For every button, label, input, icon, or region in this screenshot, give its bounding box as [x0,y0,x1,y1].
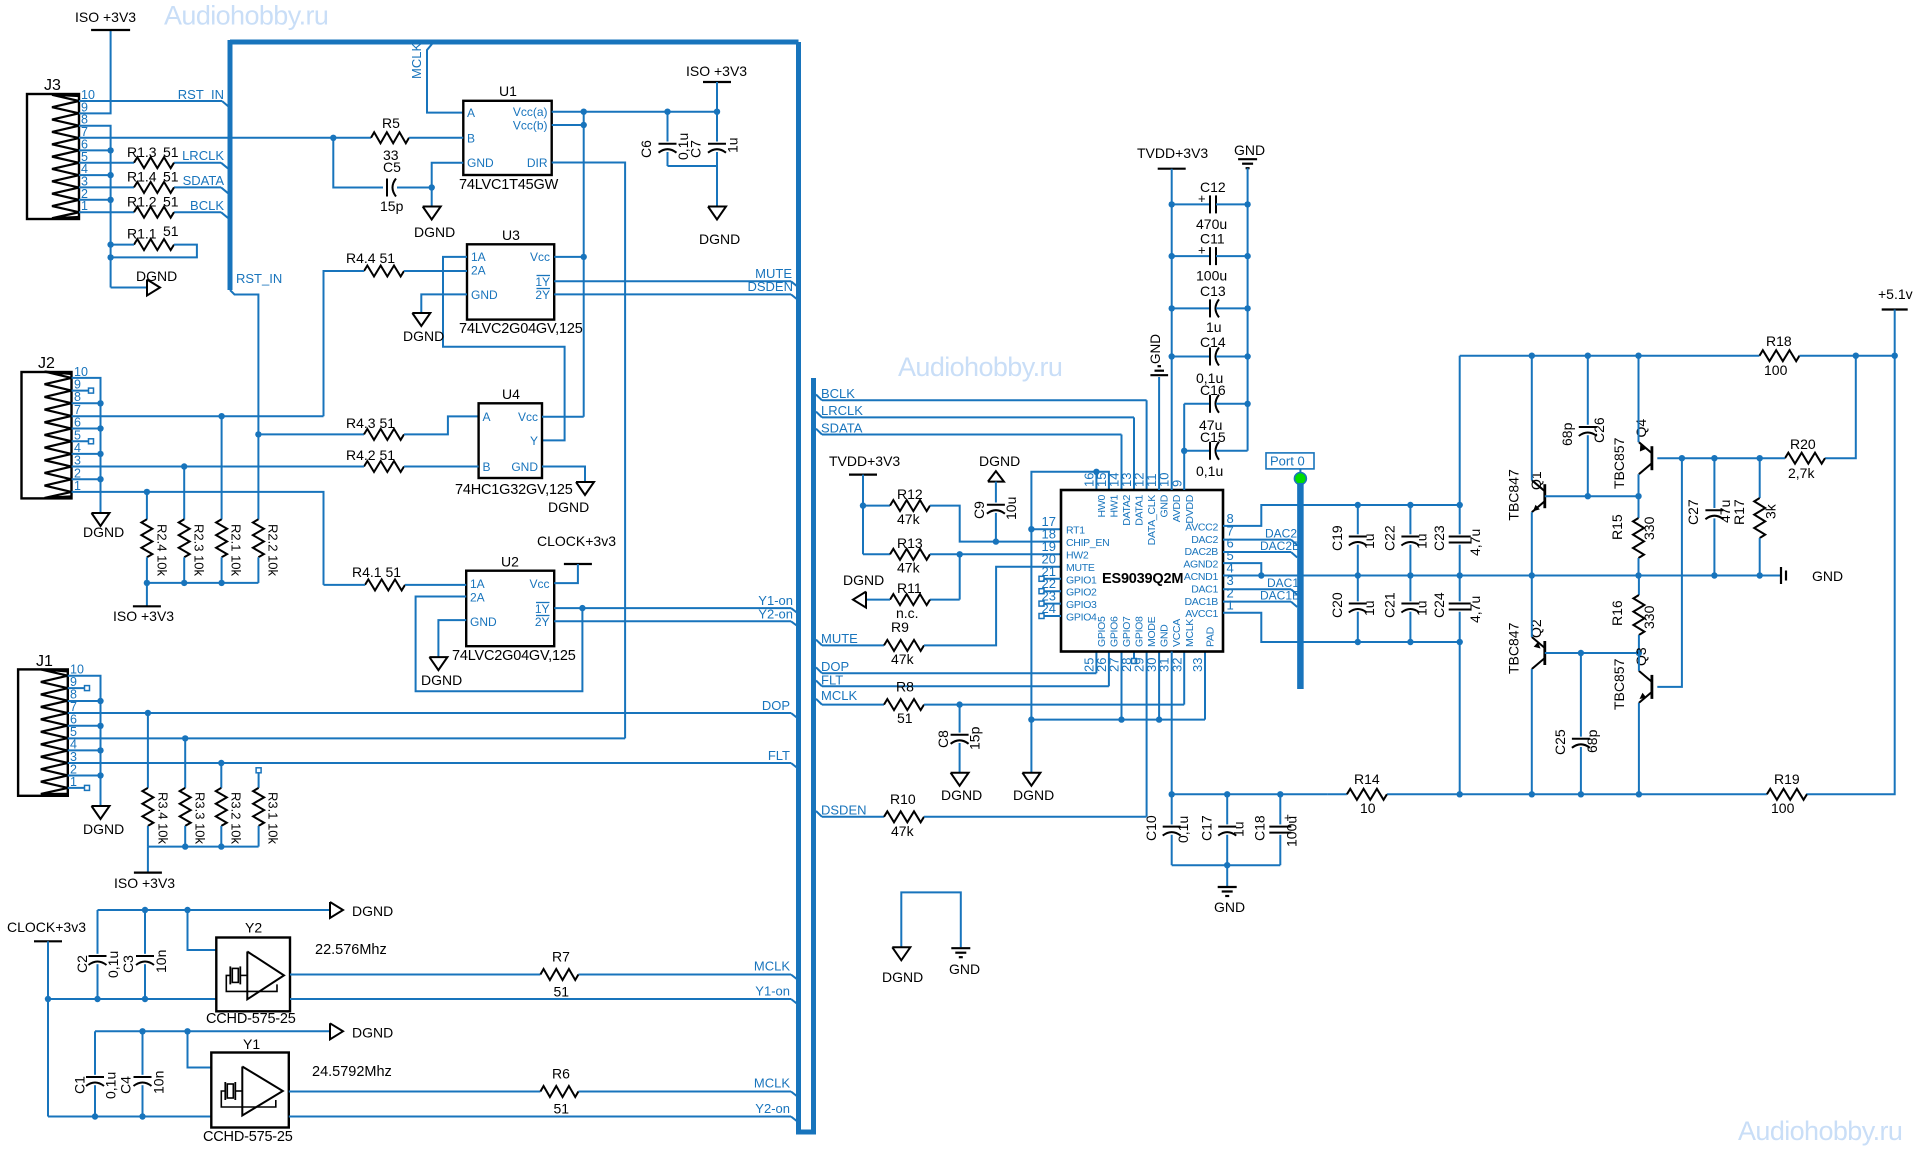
svg-text:RST_IN: RST_IN [178,87,224,102]
bus: thick middle vertical (left leg) [796,42,801,1132]
svg-text:Y: Y [530,434,538,448]
ground DGND (chip) [1013,773,1054,803]
svg-text:MCLK: MCLK [821,688,857,703]
chip left pin labels [1042,514,1110,623]
net label BCLK [190,198,224,213]
wire Y2 vdd rail [48,996,216,1002]
bus: thick left vertical (J3 side) [228,40,233,290]
svg-text:MUTE: MUTE [821,631,858,646]
svg-text:Y2-on: Y2-on [758,607,793,622]
net label Y1-on (Y2) [755,984,790,999]
capacitor C3 [120,910,169,999]
wire DGND net horizontal [1031,716,1205,722]
wire +5.1v vertical [1806,310,1895,795]
ground DGND (Y1 rail) [330,1023,393,1040]
svg-text:Q1: Q1 [1528,471,1544,490]
svg-text:C3: C3 [120,955,136,973]
ground GND (VCCA) [1214,887,1245,915]
svg-text:TVDD+3V3: TVDD+3V3 [1137,145,1208,161]
svg-text:Audiohobby.ru: Audiohobby.ru [164,1,328,31]
svg-text:TBC847: TBC847 [1506,622,1522,674]
svg-text:Audiohobby.ru: Audiohobby.ru [1738,1116,1902,1146]
transistor Q1 TBC847 [1506,469,1545,521]
junction J2 pin4 [72,451,104,457]
J3 pin label 2 [81,187,88,201]
wire U3 1A loop from U4 Y [443,257,565,441]
wire R2.x bottoms rail [144,557,259,586]
svg-text:U1: U1 [499,83,517,99]
wire U4 GND to DGND [542,467,585,483]
capacitor C1 [72,1031,119,1116]
svg-text:AVDD: AVDD [1171,494,1183,522]
svg-text:C17: C17 [1199,815,1215,841]
svg-text:R13: R13 [897,535,923,551]
svg-text:GND: GND [1812,568,1843,584]
wire C5 left leg [333,138,383,188]
svg-text:C26: C26 [1591,417,1607,443]
net label DAC1 [1267,576,1299,590]
svg-text:DGND: DGND [699,231,740,247]
resistor R2.1 10k [216,519,243,576]
svg-text:GND: GND [949,961,980,977]
junction R12 tap [860,502,866,508]
svg-text:1Y: 1Y [535,275,550,289]
wire DGND-GND bridge [901,892,961,947]
svg-text:74LVC1T45GW: 74LVC1T45GW [459,177,559,193]
svg-text:C27: C27 [1685,499,1701,525]
svg-text:C25: C25 [1552,729,1568,755]
wire Q1 emitter down [1531,512,1533,575]
wire R20 right leg [1825,356,1856,459]
wire DGND stub [1030,720,1032,773]
wire Y1 MCLK out [289,1092,798,1098]
junction J2 pin8 [72,400,104,406]
net label BCLK (right bus) [821,386,855,401]
J2 pin label 9 [74,378,81,392]
bus: thick top horizontal segment [230,40,799,45]
svg-text:C5: C5 [383,159,401,175]
svg-text:51: 51 [163,144,179,160]
power ISO +3V3 (top) [75,9,136,30]
svg-text:Y2: Y2 [245,920,262,936]
net label FLT (left bus) [768,748,790,763]
wire Q1 base row [1545,493,1639,499]
wire R1.1 right loop [107,245,196,261]
wire Q3 collector up [1638,653,1640,671]
svg-text:2A: 2A [470,591,485,605]
capacitor C10 0,1u [1143,794,1191,865]
wire J3 pin1 BCLK [79,212,228,218]
J2 pin label 5 [74,428,81,442]
svg-text:0,1u: 0,1u [103,1072,119,1099]
wire Q3 base up [1657,458,1682,687]
svg-text:330: 330 [1641,516,1657,540]
svg-text:FLT: FLT [821,672,843,687]
J2 pin label 3 [74,454,81,468]
svg-text:R20: R20 [1790,436,1816,452]
wire U2 1Y Y1-on [554,608,798,613]
svg-text:1Y: 1Y [535,602,550,616]
svg-text:AVCC1: AVCC1 [1185,608,1218,620]
bus: thick bottom U-turn [796,1130,816,1135]
connector J2 [22,355,72,498]
wire J1 pin9 nc [68,686,90,691]
ground GND (star) [949,948,980,977]
net label Y2-on (Y1) [755,1101,790,1116]
resistor R9 47k [884,619,924,667]
wire to DGND (J3) [111,287,147,289]
wire Y2 EN pin [188,910,217,950]
svg-text:GPIO6: GPIO6 [1108,616,1120,647]
power ISO +3V3 (J2 pulls) [113,583,174,624]
svg-text:SDATA: SDATA [821,420,863,435]
wire Y1 vdd rail [47,1114,49,1116]
svg-text:GPIO7: GPIO7 [1121,616,1133,647]
svg-text:R9: R9 [891,619,909,635]
port label Port 0 [1266,453,1314,469]
capacitor C8 15p [935,705,983,773]
resistor R18 100 [1760,333,1800,378]
power TVDD+3V3 [829,453,900,554]
resistor R3.2 10k [216,788,244,845]
svg-text:R5: R5 [382,115,400,131]
svg-text:R16: R16 [1609,600,1625,626]
wire J2 pin1 long [72,489,324,585]
svg-text:22.576Mhz: 22.576Mhz [315,942,387,958]
svg-text:R2.4 10k: R2.4 10k [155,524,170,577]
resistor R4.2 [346,447,404,472]
svg-text:R18: R18 [1766,333,1792,349]
svg-text:J1: J1 [36,653,53,670]
resistor R14 10 [1347,771,1387,816]
wire RST_IN bus tail [230,290,258,434]
resistor R4.4 [346,250,404,277]
J2 pin label 10 [74,365,88,379]
wire Y1 gnd rail [95,1028,330,1034]
svg-text:DIR: DIR [527,156,548,170]
resistor R10 47k [884,791,924,839]
wire Q4 base row [1657,455,1785,461]
svg-text:TBC857: TBC857 [1611,658,1627,710]
IC U1 74LVC1T45GW [459,83,559,193]
wire C6 C7 bottoms [668,166,718,207]
net label FLT (right bus) [821,672,843,687]
svg-text:1: 1 [70,775,77,789]
capacitor C24 4,7u [1431,576,1483,643]
net label LRCLK [182,148,224,163]
resistor R5 [333,115,409,163]
svg-text:LRCLK: LRCLK [821,403,863,418]
svg-text:DOP: DOP [762,698,790,713]
net label LRCLK (right bus) [821,403,863,418]
resistor R13 47k [863,535,930,576]
wire J1 pin7 DOP [68,710,798,719]
svg-text:R4.1 51: R4.1 51 [352,564,401,580]
svg-text:DAC1B: DAC1B [1260,589,1300,603]
svg-text:2,7k: 2,7k [1788,465,1815,481]
net label DAC2 [1265,527,1297,541]
transistor Q4 TBC857 [1611,419,1652,489]
wire U2 2A feedback loop [416,597,586,692]
svg-text:MCLK: MCLK [409,43,424,79]
svg-text:GPIO5: GPIO5 [1096,616,1108,647]
wire C24 col down [1459,642,1461,794]
svg-text:R17: R17 [1731,499,1747,525]
wire CLOCK rail corner to Y1 [48,1113,211,1119]
J2 pin label 6 [74,416,81,430]
junction J1 pin4 [68,747,104,753]
svg-text:DGND: DGND [403,328,444,344]
resistor R1.4 [127,169,179,193]
chip GPIO1-4 nc stubs [1039,576,1061,618]
svg-text:HW0: HW0 [1096,495,1108,518]
capacitor C15 0,1u [1184,429,1247,479]
junction C5 tap [330,135,336,141]
svg-text:DSDEN: DSDEN [821,803,867,818]
resistor R1.1 [127,223,179,250]
svg-text:Audiohobby.ru: Audiohobby.ru [898,352,1062,382]
svg-text:C8: C8 [935,730,951,748]
resistor R2.2 10k [253,519,281,576]
svg-text:DATA2: DATA2 [1121,495,1133,526]
svg-text:C19: C19 [1329,525,1345,551]
wire J1 pin3 FLT [68,760,798,769]
svg-text:R4.2 51: R4.2 51 [346,447,395,463]
ground DGND (U4) [548,482,594,515]
svg-text:1u: 1u [1361,600,1377,616]
wire AVCC2 top rail [1355,502,1463,508]
svg-text:33: 33 [1190,658,1205,672]
net label SDATA (right bus) [821,420,863,435]
svg-text:BCLK: BCLK [821,386,855,401]
ground GND (stack top) [1234,142,1265,168]
svg-text:C4: C4 [118,1076,134,1094]
wire top rail 355 [1460,353,1760,359]
power CLOCK+3v3 (U2) [537,533,616,564]
junction J2 pin2 [72,476,104,482]
svg-text:DAC1: DAC1 [1191,583,1218,595]
wire J3 pin3 SDATA [79,187,228,193]
wire mid rail right part [1532,572,1780,578]
svg-text:Y2-on: Y2-on [755,1101,790,1116]
svg-text:CCHD-575-25: CCHD-575-25 [203,1129,293,1145]
capacitor C23 4,7u [1431,505,1483,576]
svg-text:1u: 1u [1206,319,1222,335]
net label DAC1B [1260,589,1300,603]
wire AGND2 join [1223,563,1265,579]
svg-text:51: 51 [163,169,179,185]
svg-text:U4: U4 [502,386,520,402]
svg-text:51: 51 [554,984,570,1000]
wire R4.3 to U4 A [404,416,479,434]
wire U3 Vcc [554,254,587,260]
J3 pin label 5 [81,150,88,164]
resistor R2.3 10k [179,519,207,576]
bus: thick right vertical (DAC side) [811,378,816,1132]
svg-text:ISO +3V3: ISO +3V3 [113,608,174,624]
wire LRCLK to DATA1 [816,412,1134,490]
junction CLOCK rail Y2 [45,996,51,1002]
wire J2 pin3 to R4.2 to U4 B [223,466,478,468]
resistor R12 47k [863,486,930,527]
svg-text:100: 100 [1771,800,1795,816]
svg-text:+: + [1198,191,1206,206]
wire C23 col up [1459,356,1461,505]
wire R4.4 right to U3 2A [404,270,467,272]
resistor R8 51 [884,679,924,727]
svg-text:AGND2: AGND2 [1183,559,1218,571]
wire Vcc vertical to U3/U4 [583,112,585,417]
wire U2 2Y Y2-on [554,621,798,626]
wire RT1 to DGND net [1028,526,1061,532]
svg-text:R14: R14 [1354,771,1380,787]
svg-text:R7: R7 [552,949,570,965]
svg-text:GND: GND [471,288,498,302]
capacitor C19 1u [1329,505,1377,576]
svg-text:GPIO4: GPIO4 [1066,612,1097,624]
wire MCLK from top bus to U1 A [427,44,463,113]
resistor R1.2 [127,194,179,218]
svg-text:74LVC2G04GV,125: 74LVC2G04GV,125 [459,321,583,337]
node Port 0 green dot [1294,473,1306,485]
svg-text:PAD: PAD [1205,626,1217,647]
transistor Q2 TBC847 [1506,619,1545,674]
svg-text:DAC2B: DAC2B [1260,539,1300,553]
svg-text:DGND: DGND [1013,787,1054,803]
svg-text:4,7u: 4,7u [1467,529,1483,556]
J1 pin label 2 [70,762,77,776]
svg-text:J3: J3 [44,77,61,94]
svg-text:0,1u: 0,1u [105,951,121,978]
svg-text:RST_IN: RST_IN [236,271,282,286]
wire GND stub (VCCA) [1226,865,1228,886]
J3 pin label 7 [81,125,88,139]
svg-text:1: 1 [81,199,88,213]
wire AGND1 mid rail [1223,575,1532,577]
wire VCCA down [1169,652,1175,798]
svg-text:FLT: FLT [768,748,790,763]
svg-text:10n: 10n [153,950,169,973]
svg-text:R2.2 10k: R2.2 10k [266,524,281,577]
wire U1 Vcc(b) [552,122,587,128]
svg-text:R4.3 51: R4.3 51 [346,415,395,431]
ground DGND (U3) [403,313,444,344]
svg-text:C18: C18 [1252,815,1268,841]
ground DGND (star) [882,947,923,985]
wire J1 pin10 [68,676,101,806]
wire Q2 base row [1545,650,1642,656]
wire J2 pin3 long [72,463,224,469]
watermark bottom-right [1738,1116,1902,1146]
net label DOP (left bus) [762,698,790,713]
IC U3 74LVC2G04GV [459,227,583,337]
svg-text:1: 1 [1227,598,1234,613]
svg-text:CCHD-575-25: CCHD-575-25 [206,1011,296,1027]
oscillator Y1 CCHD-575-25 [203,1036,392,1145]
svg-text:DAC2B: DAC2B [1184,546,1218,558]
J1 pin label 8 [70,688,77,702]
svg-text:CLOCK+3v3: CLOCK+3v3 [7,919,86,935]
capacitor C7 [688,112,741,166]
wire R2.4 top [146,492,148,520]
ground DGND (C9) [979,453,1020,482]
svg-text:C23: C23 [1431,525,1447,551]
svg-text:Vcc: Vcc [518,410,538,424]
svg-text:C1: C1 [72,1076,88,1094]
wire MCLK from bus [816,699,884,705]
wire J1 pin1 nc [68,785,90,790]
resistor R19 100 [1767,771,1807,816]
svg-text:0,1u: 0,1u [1196,463,1223,479]
svg-text:B: B [483,460,491,474]
svg-text:DATA1: DATA1 [1134,495,1146,526]
J1 pin label 9 [70,675,77,689]
svg-text:1u: 1u [1414,600,1430,616]
net label DAC2B [1260,539,1300,553]
wire Q3 emitter down [1638,703,1640,794]
wire C5 right leg [397,184,435,190]
svg-text:1u: 1u [1361,533,1377,549]
svg-text:GND: GND [470,615,497,629]
wire Y2 MCLK out [290,975,798,981]
resistor R2.4 10k [141,519,169,576]
wire U1 GND to DGND [432,163,464,207]
net label MUTE (right bus) [821,631,858,646]
wire R18 right [1800,353,1898,359]
resistor R3.4 10k [142,788,170,845]
svg-text:1u: 1u [725,137,741,153]
ground GND (mid rail) [1781,567,1843,584]
resistor R4.1 [352,564,405,590]
svg-text:ISO +3V3: ISO +3V3 [686,63,747,79]
resistor R3.3 10k [180,788,208,845]
svg-text:Q3: Q3 [1633,647,1649,666]
capacitor C6 [638,112,691,166]
svg-text:RT1: RT1 [1066,525,1085,537]
svg-text:GND: GND [1148,334,1163,364]
net label MCLK (right bus) [821,688,857,703]
junction RST_IN row [255,431,261,437]
svg-text:15p: 15p [380,198,404,214]
svg-text:R8: R8 [896,679,914,695]
J1 pin label 5 [70,725,77,739]
svg-text:SDATA: SDATA [183,173,225,188]
J3 pin label 6 [81,137,88,151]
svg-text:A: A [483,410,491,424]
svg-text:C21: C21 [1382,592,1398,618]
power CLOCK+3v3 (osc) [7,919,86,1117]
wire DOP from bus to GPIO5 [816,652,1096,674]
svg-text:DGND: DGND [979,453,1020,469]
J2 pin label 1 [74,479,81,493]
capacitor C17 1u [1199,794,1247,865]
svg-text:DGND: DGND [352,1025,393,1041]
net label RST_IN (bus bottom) [236,271,282,286]
svg-text:U2: U2 [501,554,519,570]
watermark top-left [164,1,328,31]
svg-text:1u: 1u [1231,821,1247,837]
wire U3 GND to DGND [421,294,467,313]
svg-text:DGND: DGND [352,903,393,919]
svg-text:Vcc(a): Vcc(a) [513,105,548,119]
net label MCLK (U1) [409,43,424,79]
net label DSDEN (left bus) [747,279,793,294]
watermark center [898,352,1062,382]
J2 pin label 4 [74,441,81,455]
svg-text:CHIP_EN: CHIP_EN [1066,537,1109,549]
wire J3 ground vertical [110,243,112,288]
capacitor C20 1u [1329,576,1377,643]
